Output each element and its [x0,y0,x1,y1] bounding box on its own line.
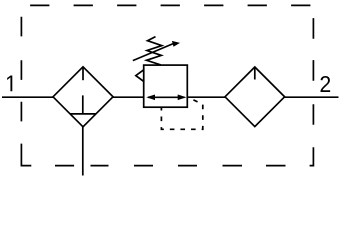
separator chord [70,113,95,115]
service unit enclosure (dashed boundary box) [21,5,313,165]
pressure regulator (square body) [144,65,188,107]
relief vent triangle on regulator left edge [136,70,144,82]
port label 1 [7,75,12,91]
pilot feedback line (dashed) below regulator [161,98,202,129]
wire: port 1 inlet line [2,96,53,98]
diamond body [53,67,113,127]
drip tube tick [82,95,84,114]
bottom-right corner L [310,147,314,165]
top dashed edge [30,4,310,6]
inlet tick from top vertex [82,67,84,80]
regulator flow path double arrow [146,95,186,101]
wire: regulator to lubricator [187,96,225,98]
adjustment spring (zigzag) on regulator top [147,37,162,65]
adjustment arrow through spring [133,41,180,61]
port label 2 [321,76,331,92]
left dashed edge [20,17,22,122]
diamond body [225,67,285,127]
bottom-left corner L [21,144,31,166]
right dashed edge [312,18,314,125]
drip tick from top vertex [254,67,256,80]
drain line (condensate drain) [82,127,84,176]
lubricator (right diamond) [225,67,285,127]
wire: filter to regulator [113,96,144,98]
wire: port 2 outlet line [285,96,339,98]
filter with water separator (left diamond) [53,67,113,127]
bottom dashed edge [55,165,286,167]
